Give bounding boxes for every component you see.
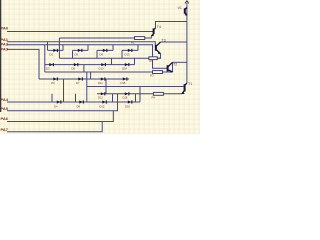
svg-text:D2: D2 bbox=[46, 67, 50, 71]
svg-text:PA7: PA7 bbox=[1, 127, 9, 132]
svg-text:D5: D5 bbox=[75, 52, 79, 56]
svg-text:D7: D7 bbox=[76, 81, 80, 85]
svg-text:D8: D8 bbox=[77, 104, 81, 108]
svg-text:PA0: PA0 bbox=[1, 26, 9, 31]
svg-text:D14: D14 bbox=[122, 67, 127, 71]
svg-text:R1: R1 bbox=[131, 40, 135, 44]
svg-text:T4: T4 bbox=[157, 25, 161, 29]
svg-text:PA5: PA5 bbox=[1, 106, 9, 111]
svg-text:D16: D16 bbox=[125, 104, 130, 108]
svg-text:T1: T1 bbox=[188, 82, 192, 86]
svg-text:PA6: PA6 bbox=[1, 116, 9, 121]
svg-text:D12: D12 bbox=[100, 104, 105, 108]
svg-text:R3: R3 bbox=[150, 74, 154, 78]
svg-text:D4: D4 bbox=[54, 104, 58, 108]
svg-text:D9: D9 bbox=[100, 52, 104, 56]
svg-text:V1: V1 bbox=[178, 6, 182, 10]
svg-text:T2: T2 bbox=[173, 62, 177, 66]
svg-text:R2: R2 bbox=[150, 59, 154, 63]
svg-text:D11: D11 bbox=[98, 81, 103, 85]
svg-text:D1: D1 bbox=[50, 52, 54, 56]
svg-text:D6: D6 bbox=[72, 67, 76, 71]
svg-text:D10: D10 bbox=[99, 67, 104, 71]
svg-text:T3: T3 bbox=[162, 38, 166, 42]
svg-text:PA3: PA3 bbox=[1, 46, 9, 51]
svg-text:D16: D16 bbox=[123, 95, 128, 99]
svg-text:D15: D15 bbox=[121, 81, 126, 85]
svg-text:PA4: PA4 bbox=[1, 97, 9, 102]
svg-text:D3: D3 bbox=[51, 81, 55, 85]
svg-text:D13: D13 bbox=[125, 52, 130, 56]
svg-text:D12: D12 bbox=[98, 95, 103, 99]
svg-text:R4: R4 bbox=[152, 96, 156, 100]
